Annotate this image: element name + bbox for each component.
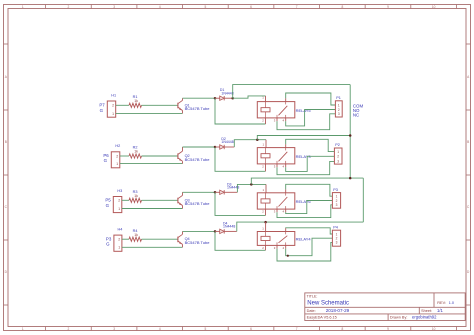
- svg-text:1: 1: [337, 150, 339, 154]
- wire NO: [286, 156, 335, 171]
- wire: [142, 199, 178, 201]
- relay RELAY6: [257, 193, 311, 209]
- wire: [120, 155, 129, 157]
- relay NO pin: [285, 209, 287, 212]
- relay coil pin 2: [265, 164, 267, 171]
- wire NC: [277, 114, 335, 130]
- svg-text:ergobinath92: ergobinath92: [412, 315, 437, 320]
- relay coil pin 2: [265, 118, 267, 124]
- wire NC: [277, 242, 332, 261]
- svg-text:8: 8: [341, 327, 343, 331]
- title block: [305, 293, 465, 321]
- wire coil bottom: [215, 192, 266, 215]
- wire COM: [286, 93, 336, 105]
- wire supply rail: [257, 136, 350, 140]
- svg-text:1: 1: [116, 162, 118, 166]
- svg-text:RELAY4: RELAY4: [296, 236, 312, 241]
- svg-text:1N4448: 1N4448: [223, 225, 235, 229]
- relay coil pin 2: [265, 209, 267, 215]
- svg-text:3: 3: [336, 241, 338, 245]
- connector H1: [107, 93, 116, 117]
- junction node collector Q4: [214, 230, 217, 233]
- svg-text:1k: 1k: [134, 99, 138, 103]
- wire coil top: [234, 140, 266, 147]
- svg-text:2: 2: [118, 199, 120, 203]
- wire NO: [286, 201, 333, 214]
- svg-text:1k: 1k: [134, 233, 138, 237]
- svg-text:10: 10: [432, 327, 436, 331]
- relay common pin: [285, 228, 287, 231]
- svg-text:TITLE:: TITLE:: [307, 294, 318, 298]
- relay common pin: [285, 98, 287, 101]
- wire COM: [286, 184, 333, 196]
- junction bus/rail3: [349, 177, 352, 180]
- svg-text:4: 4: [159, 5, 161, 9]
- wire coil bottom: [215, 147, 266, 171]
- svg-text:RELAY6: RELAY6: [296, 199, 312, 204]
- svg-text:P2: P2: [335, 143, 340, 147]
- wire: [142, 104, 178, 106]
- svg-text:1: 1: [112, 112, 114, 116]
- svg-text:2: 2: [116, 154, 118, 158]
- svg-text:EasyEDA V5.6.15: EasyEDA V5.6.15: [307, 316, 337, 320]
- svg-text:1k: 1k: [134, 150, 138, 154]
- wire: [224, 230, 237, 232]
- wire bus segment 1: [349, 85, 351, 179]
- svg-text:H1: H1: [111, 93, 116, 97]
- svg-text:Drawn By:: Drawn By:: [390, 316, 408, 320]
- svg-text:1N4448: 1N4448: [221, 91, 233, 95]
- wire: [183, 230, 216, 232]
- svg-text:New Schematic: New Schematic: [307, 301, 349, 307]
- transistor Q4: [178, 231, 210, 247]
- wire: [224, 97, 233, 99]
- wire: [224, 146, 234, 148]
- svg-text:2: 2: [337, 155, 339, 159]
- wire coil bottom: [215, 98, 266, 124]
- wire coil top: [237, 184, 266, 192]
- connector H4: [114, 227, 122, 251]
- sheet frame ticks left: [4, 44, 9, 305]
- svg-text:H4: H4: [118, 227, 123, 231]
- wire: [183, 191, 216, 193]
- svg-text:1: 1: [118, 246, 120, 250]
- junction node cathode D1: [231, 97, 234, 100]
- svg-text:9: 9: [387, 327, 389, 331]
- relay NC pin: [276, 209, 278, 212]
- relay RELAY4: [257, 232, 311, 246]
- svg-text:1N4448: 1N4448: [221, 140, 233, 144]
- resistor R3: [129, 190, 142, 202]
- svg-text:9: 9: [387, 5, 389, 9]
- wire: [224, 191, 237, 193]
- junction node collector Q2: [214, 146, 217, 149]
- svg-text:B: B: [467, 140, 469, 144]
- transistor Q3: [178, 192, 210, 208]
- svg-text:1: 1: [22, 5, 24, 9]
- relay coil pin 1: [265, 96, 267, 102]
- svg-text:Date:: Date:: [307, 309, 316, 313]
- relay coil pin 1: [265, 140, 267, 148]
- wire: [142, 238, 178, 240]
- svg-text:H2: H2: [115, 144, 120, 148]
- resistor R4: [129, 229, 142, 241]
- svg-text:1/1: 1/1: [437, 308, 443, 313]
- connector P2: [334, 143, 342, 164]
- svg-text:P4: P4: [333, 225, 338, 229]
- transistor Q1: [178, 98, 210, 113]
- svg-text:G: G: [106, 203, 110, 208]
- svg-text:BC547B Tube: BC547B Tube: [185, 240, 211, 245]
- svg-text:G: G: [100, 108, 104, 113]
- svg-text:6: 6: [250, 5, 252, 9]
- relay NC pin: [276, 118, 278, 121]
- connector P4: [332, 225, 340, 246]
- wire: [122, 199, 129, 201]
- svg-text:5: 5: [205, 5, 207, 9]
- diode D1: [215, 88, 234, 100]
- sheet frame ticks bottom: [22, 327, 457, 332]
- svg-text:3: 3: [113, 327, 115, 331]
- svg-text:G: G: [106, 242, 110, 247]
- diode D4: [215, 221, 235, 233]
- wire bus segment 2: [362, 178, 364, 222]
- relay coil pin 1: [265, 222, 267, 231]
- wire: [116, 112, 183, 114]
- wire NO: [286, 110, 336, 126]
- transistor Q2: [178, 147, 210, 164]
- junction: [287, 255, 289, 257]
- connector H2: [111, 144, 120, 168]
- svg-text:5: 5: [205, 327, 207, 331]
- relay coil pin 2: [265, 245, 267, 250]
- wire: [122, 238, 129, 240]
- resistor R2: [129, 146, 142, 158]
- svg-text:7: 7: [296, 5, 298, 9]
- svg-text:B: B: [5, 140, 7, 144]
- relay RELAY3: [257, 148, 311, 164]
- diode D3: [215, 182, 239, 194]
- svg-text:4: 4: [159, 327, 161, 331]
- relay coil pin 1: [265, 184, 267, 192]
- svg-text:1: 1: [118, 207, 120, 211]
- junction node collector Q1: [214, 97, 217, 100]
- svg-text:3: 3: [113, 5, 115, 9]
- svg-text:7: 7: [296, 327, 298, 331]
- svg-text:H3: H3: [117, 189, 122, 193]
- wire NO: [286, 238, 333, 256]
- svg-text:Sheet:: Sheet:: [421, 309, 432, 313]
- wire supply rail: [251, 178, 363, 184]
- wire COM: [286, 139, 335, 151]
- junction node coil top: [256, 138, 259, 141]
- sheet frame ticks top: [22, 5, 457, 9]
- svg-text:P7: P7: [99, 103, 105, 108]
- connector H3: [113, 189, 122, 213]
- svg-text:P3: P3: [333, 188, 338, 192]
- svg-text:NC: NC: [353, 113, 359, 118]
- relay NC pin: [276, 164, 278, 167]
- svg-text:3: 3: [336, 203, 338, 207]
- svg-text:8: 8: [341, 5, 343, 9]
- wire coil top: [233, 96, 266, 98]
- svg-text:P3: P3: [106, 236, 112, 241]
- wire: [183, 97, 216, 99]
- wire NC: [277, 205, 332, 218]
- svg-text:2018-07-29: 2018-07-29: [326, 308, 350, 313]
- svg-text:1k: 1k: [134, 194, 138, 198]
- svg-text:10: 10: [432, 5, 436, 9]
- relay NO pin: [285, 164, 287, 167]
- relay NO pin: [285, 245, 287, 248]
- wire COM: [286, 228, 333, 234]
- wire: [142, 155, 178, 157]
- wire supply rail: [233, 85, 351, 99]
- svg-text:2: 2: [68, 327, 70, 331]
- relay common pin: [285, 189, 287, 192]
- svg-text:BC547B Tube: BC547B Tube: [185, 201, 211, 206]
- svg-text:1.0: 1.0: [449, 301, 454, 305]
- wire: [116, 104, 129, 106]
- wire NC: [277, 161, 334, 174]
- wire supply rail: [237, 222, 363, 231]
- relay RELAY5: [257, 102, 311, 118]
- svg-text:1: 1: [22, 327, 24, 331]
- svg-text:P1: P1: [336, 96, 341, 100]
- svg-text:P5: P5: [105, 198, 111, 203]
- svg-text:3: 3: [338, 112, 340, 116]
- svg-text:G: G: [104, 158, 108, 163]
- junction bus/rail2: [349, 134, 352, 137]
- wire: [183, 146, 216, 148]
- svg-text:BC547B Tube: BC547B Tube: [185, 157, 211, 162]
- svg-text:2: 2: [118, 238, 120, 242]
- junction node coil top: [264, 221, 267, 224]
- connector P3: [332, 188, 340, 208]
- sheet frame ticks right: [466, 44, 471, 305]
- svg-text:BC547B Tube: BC547B Tube: [185, 106, 211, 111]
- svg-text:1: 1: [338, 103, 340, 107]
- svg-text:2: 2: [68, 5, 70, 9]
- svg-text:REV:: REV:: [437, 301, 446, 305]
- junction node coil top: [250, 183, 253, 186]
- relay NO pin: [285, 118, 287, 121]
- svg-text:RELAY5: RELAY5: [296, 108, 312, 113]
- junction node collector Q3: [214, 191, 217, 194]
- connector P1: [335, 96, 342, 117]
- relay NC pin: [276, 245, 278, 248]
- resistor R1: [129, 95, 142, 107]
- relay common pin: [285, 144, 287, 147]
- svg-text:3: 3: [337, 160, 339, 164]
- wire: [122, 208, 183, 210]
- wire coil bottom: [215, 231, 266, 250]
- wire: [122, 246, 183, 248]
- diode D2: [215, 137, 234, 149]
- svg-text:6: 6: [250, 327, 252, 331]
- svg-text:2: 2: [112, 104, 114, 108]
- wire: [120, 163, 183, 165]
